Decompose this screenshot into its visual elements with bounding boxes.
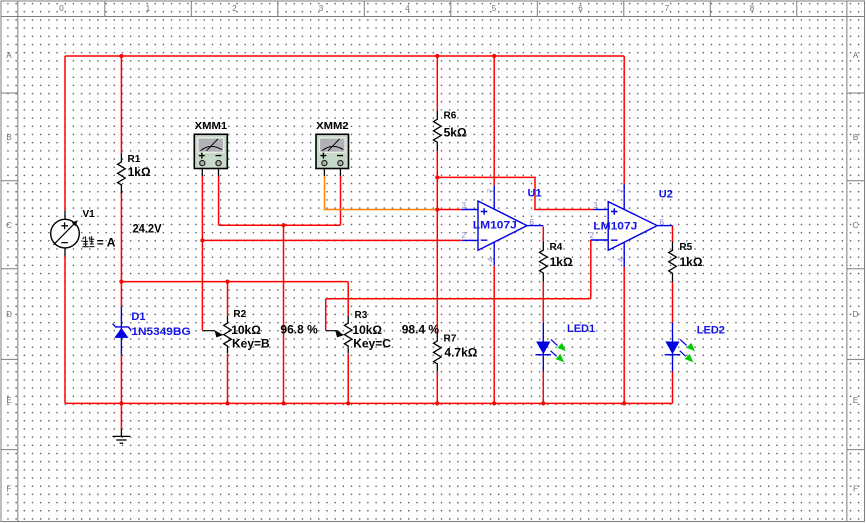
wire V1 bottom to ground bus [64, 257, 66, 404]
svg-text:4.7kΩ: 4.7kΩ [444, 346, 477, 360]
svg-text:B: B [6, 133, 11, 142]
svg-text:U2: U2 [659, 188, 673, 200]
svg-text:D: D [6, 310, 12, 319]
svg-text:6: 6 [578, 4, 583, 13]
wire XMM2 plus (orange) to divider node [325, 176, 438, 210]
wire R2 bottom to ground bus [227, 354, 229, 404]
resistor R4 [540, 241, 548, 282]
wire LED1 bottom to ground bus [542, 372, 544, 404]
label R2 value key [231, 309, 270, 350]
svg-text:3: 3 [462, 201, 467, 210]
svg-text:5kΩ: 5kΩ [444, 126, 467, 140]
svg-text:R3: R3 [355, 310, 368, 321]
wire R1/D1 node to pots top [121, 281, 348, 283]
svg-text:6: 6 [660, 218, 665, 227]
wire U1 pin7 supply [493, 56, 495, 185]
svg-text:Key=C: Key=C [353, 336, 391, 350]
svg-text:LED2: LED2 [697, 325, 725, 337]
svg-text:98.4 %: 98.4 % [402, 323, 440, 337]
label R7 value [444, 333, 478, 359]
ruler numbers [59, 4, 755, 13]
ground [113, 429, 131, 443]
svg-text:LED1: LED1 [567, 323, 595, 335]
svg-text:4: 4 [616, 257, 625, 262]
wire R3 wiper to U2 pin2 [326, 298, 591, 300]
wire XMM1 plus down to R2 wiper [201, 176, 203, 331]
potentiometer R3 [326, 316, 352, 354]
op-amp U2 [591, 184, 673, 267]
wire U2 pin2 riser [590, 240, 592, 299]
voltage source V1 [51, 210, 80, 256]
wire LED2 bottom to ground bus [672, 372, 674, 404]
wire R3 wiper drop [325, 299, 327, 331]
wire U1 out to R4 [542, 226, 544, 241]
wire XMM1 minus to XMM2 minus junction [219, 224, 341, 226]
zener diode D1 [113, 307, 132, 356]
svg-text:5: 5 [492, 4, 497, 13]
label R1 value [128, 154, 151, 179]
wire R4 bottom to LED1 [542, 282, 544, 323]
svg-text:24.2V: 24.2V [133, 222, 162, 236]
wire R6 bottom to R7 top column [436, 151, 438, 334]
svg-text:LM107J: LM107J [593, 221, 637, 233]
svg-text:7: 7 [486, 188, 495, 193]
svg-text:8: 8 [750, 4, 755, 13]
svg-text:1: 1 [146, 4, 151, 13]
svg-text:E: E [853, 396, 858, 405]
wire U1 pin3 from divider node [437, 209, 461, 211]
resistor R7 [434, 333, 442, 371]
svg-text:4: 4 [486, 257, 495, 262]
svg-text:7: 7 [616, 188, 625, 193]
wire U2 pin4 to ground bus [623, 267, 625, 403]
svg-text:R2: R2 [233, 309, 246, 320]
svg-text:R6: R6 [444, 110, 457, 121]
svg-text:B: B [853, 133, 858, 142]
wire R3 bottom to ground bus [347, 354, 349, 404]
wire R3 top lead [347, 282, 349, 316]
svg-text:2: 2 [232, 4, 237, 13]
wire U2 pin7 supply [623, 56, 625, 184]
svg-text:0: 0 [59, 4, 64, 13]
wire R2 top lead [227, 282, 229, 316]
resistor R1 [118, 153, 126, 193]
svg-text:= A: = A [97, 236, 116, 250]
wire left branch to V1 top [64, 56, 66, 210]
svg-text:4: 4 [405, 4, 410, 13]
resistor R5 [669, 242, 677, 282]
wire U1 pin4 to ground bus [493, 266, 495, 404]
label R4 value [550, 242, 573, 269]
svg-text:96.8 %: 96.8 % [280, 323, 318, 337]
wire meters common down to ground bus [283, 225, 285, 403]
svg-text:10kΩ: 10kΩ [231, 323, 261, 337]
wire R1 bottom to D1 top [120, 192, 122, 306]
svg-text:1kΩ: 1kΩ [128, 165, 151, 179]
svg-text:1kΩ: 1kΩ [680, 255, 703, 269]
wire XMM2 minus down [340, 176, 342, 225]
multimeter XMM2 [316, 134, 349, 176]
svg-text:1kΩ: 1kΩ [550, 255, 573, 269]
svg-text:Key=B: Key=B [232, 336, 270, 350]
multimeter XMM1 [194, 134, 227, 176]
svg-text:R1: R1 [128, 154, 141, 165]
svg-text:3: 3 [593, 201, 598, 210]
svg-text:D1: D1 [131, 311, 145, 323]
svg-text:U1: U1 [528, 187, 542, 199]
wires (red) [65, 56, 673, 429]
svg-text:R5: R5 [679, 242, 692, 253]
wire U1 pin2 from R2 wiper column [202, 239, 462, 241]
label R3 value key [352, 310, 391, 351]
wire R7 bottom to ground bus [436, 372, 438, 404]
svg-text:2: 2 [462, 231, 467, 240]
svg-text:10kΩ: 10kΩ [352, 323, 382, 337]
svg-text:XMM1: XMM1 [195, 121, 228, 132]
wire R1 column top [120, 56, 122, 153]
wire divider node to U2 pin3 [437, 177, 593, 209]
svg-text:A: A [6, 51, 12, 60]
svg-text:C: C [6, 221, 12, 230]
wire XMM1 minus down [218, 176, 220, 225]
potentiometer R2 [202, 316, 231, 354]
wire U2 out to R5 [672, 226, 674, 242]
op-amp U1 [462, 185, 544, 265]
svg-text:7: 7 [665, 4, 670, 13]
resistor R6 [434, 111, 442, 151]
label R5 value [679, 242, 702, 269]
svg-text:A: A [853, 51, 859, 60]
wire R5 bottom to LED2 [672, 282, 674, 323]
svg-text:1N5349BG: 1N5349BG [131, 326, 190, 338]
wire D1 bottom to ground [120, 356, 122, 430]
svg-text:F: F [853, 485, 858, 494]
svg-text:6: 6 [530, 218, 535, 227]
LED LED1 [536, 323, 566, 372]
svg-text:D: D [853, 310, 859, 319]
wire top bus V+ [65, 55, 624, 57]
wire ground bus bottom [65, 402, 673, 404]
label V1 key: 键 = A [82, 236, 115, 250]
svg-text:F: F [7, 485, 12, 494]
svg-text:C: C [853, 221, 859, 230]
LED LED2 [665, 323, 695, 372]
svg-text:R4: R4 [550, 242, 563, 253]
svg-text:3: 3 [319, 4, 324, 13]
svg-text:2: 2 [590, 231, 595, 240]
svg-text:R7: R7 [444, 333, 457, 344]
svg-text:XMM2: XMM2 [316, 121, 349, 132]
label V1 [83, 209, 96, 220]
svg-text:V1: V1 [83, 209, 96, 220]
svg-text:LM107J: LM107J [473, 220, 517, 232]
wire R6 top [436, 56, 438, 111]
label R6 value [444, 110, 467, 139]
svg-text:E: E [6, 396, 11, 405]
label D1 part [131, 311, 190, 338]
